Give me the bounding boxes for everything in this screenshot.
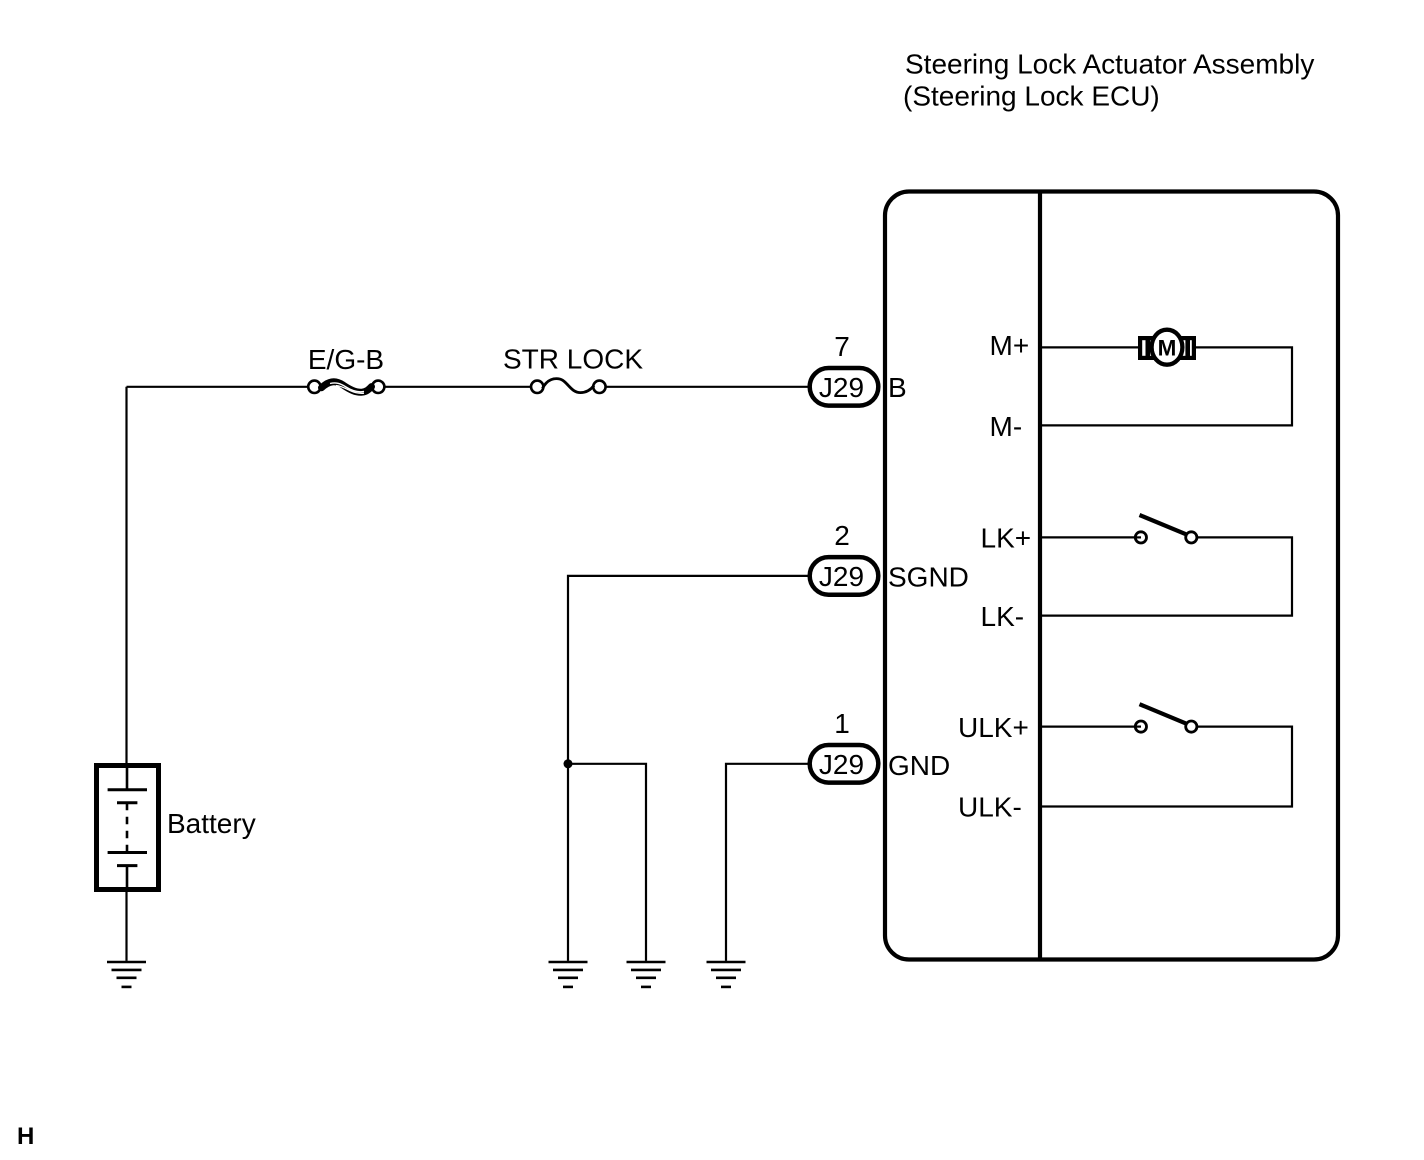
svg-text:7: 7: [834, 331, 850, 362]
node junction dot: [564, 759, 573, 768]
ECU box U1 (Steering Lock ECU outline): [885, 192, 1338, 960]
svg-text:J29: J29: [819, 561, 864, 592]
svg-text:2: 2: [834, 520, 850, 551]
svg-text:GND: GND: [888, 750, 950, 781]
svg-text:LK-: LK-: [981, 601, 1025, 632]
svg-text:J29: J29: [819, 749, 864, 780]
wire: M+ from divider to motor: [1040, 346, 1139, 348]
switch S1 (lock): [1134, 515, 1197, 543]
svg-text:J29: J29: [819, 372, 864, 403]
svg-text:ULK+: ULK+: [958, 712, 1029, 743]
wire: battery positive to fusible link: [127, 386, 308, 388]
svg-text:(Steering Lock ECU): (Steering Lock ECU): [903, 80, 1160, 111]
fusible link E/G-B: [308, 381, 384, 394]
ECU connector divider line: [1038, 190, 1042, 961]
svg-text:STR LOCK: STR LOCK: [503, 344, 643, 375]
wire: battery negative to ground: [125, 889, 127, 961]
wire: fuse to connector pin 7: [605, 386, 809, 388]
svg-text:M: M: [1158, 336, 1177, 361]
wire: motor loop to M-: [1042, 347, 1292, 425]
wire: junction to second ground: [568, 764, 646, 961]
switch S2 (unlock): [1134, 704, 1197, 732]
svg-text:M+: M+: [990, 330, 1030, 361]
connector J29 pin 1 (GND): [810, 745, 879, 783]
svg-text:LK+: LK+: [981, 523, 1032, 554]
wire: fusible link to fuse: [384, 386, 531, 388]
wire: ULK switch loop to ULK-: [1042, 727, 1292, 807]
ground G3 (junction branch): [627, 962, 666, 987]
ground G1 (battery): [107, 962, 146, 987]
svg-text:1: 1: [834, 708, 850, 739]
ground G4 (GND pin): [707, 962, 746, 987]
svg-text:Steering Lock Actuator Assembl: Steering Lock Actuator Assembly: [905, 48, 1314, 79]
title: Steering Lock Actuator Assembly (Steering Lock ECU): [903, 48, 1314, 111]
battery BAT1: [97, 766, 159, 890]
svg-text:Battery: Battery: [167, 808, 256, 839]
svg-text:M-: M-: [990, 411, 1023, 442]
motor M1: [1140, 330, 1194, 365]
connector J29 pin 7 (B): [810, 368, 879, 406]
svg-text:B: B: [888, 372, 907, 403]
fuse STR LOCK: [531, 379, 606, 393]
svg-text:H: H: [17, 1123, 34, 1150]
wire: SGND pin to ground branch: [568, 576, 809, 961]
wire: ULK+ from divider to switch: [1040, 725, 1141, 727]
wire: battery feed vertical: [125, 387, 127, 765]
svg-text:SGND: SGND: [888, 561, 969, 592]
svg-text:ULK-: ULK-: [958, 792, 1022, 823]
wire: GND pin to third ground: [726, 764, 809, 961]
svg-text:E/G-B: E/G-B: [308, 344, 384, 375]
wire: LK+ from divider to switch: [1040, 536, 1141, 538]
ground G2 (SGND branch): [549, 962, 588, 987]
wire: LK switch loop to LK-: [1042, 537, 1292, 615]
connector J29 pin 2 (SGND): [810, 557, 879, 595]
